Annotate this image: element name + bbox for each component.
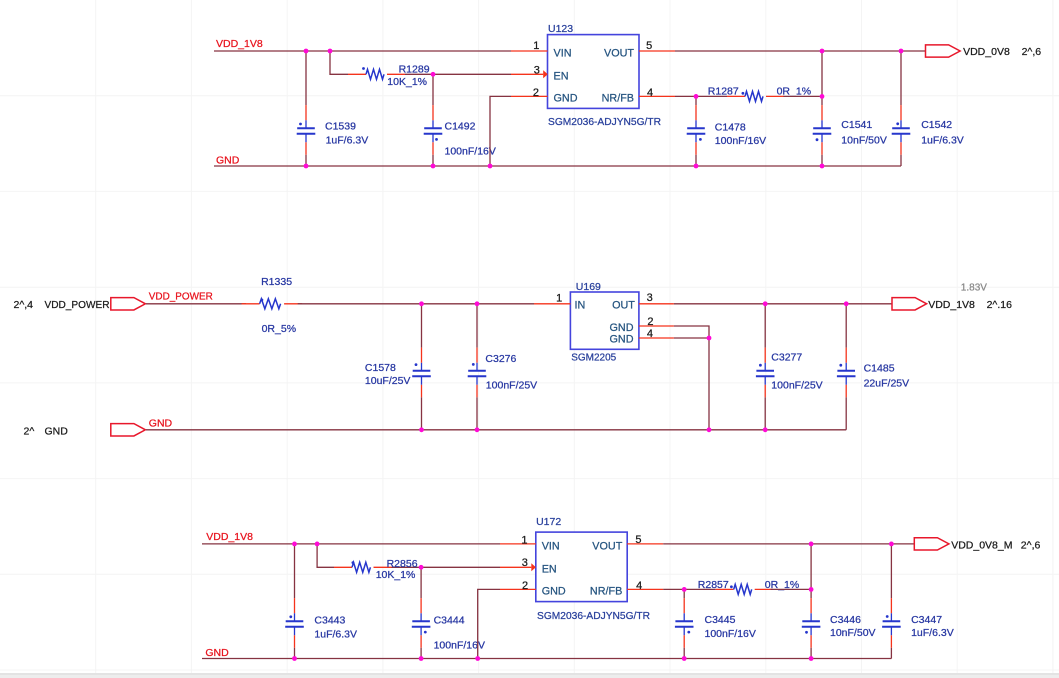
wire upper lead C1492 — [432, 74, 434, 105]
U172 pin 2 GND — [500, 588, 536, 590]
wire upper lead C3276 — [476, 304, 478, 348]
svg-text:R1287: R1287 — [708, 86, 739, 98]
wire lower lead C3445 — [683, 648, 685, 659]
svg-text:GND: GND — [149, 417, 173, 429]
U169 pin 2 GND — [639, 325, 674, 327]
U123 pin 4 NR/FB — [639, 95, 675, 97]
svg-text:U172: U172 — [536, 516, 561, 528]
svg-text:VIN: VIN — [554, 47, 572, 59]
svg-text:GND: GND — [205, 647, 229, 659]
svg-text:2^,6: 2^,6 — [1022, 46, 1042, 58]
svg-text:C1542: C1542 — [921, 119, 952, 131]
U123 pin 5 VOUT — [639, 50, 675, 52]
pin 2 C1541 — [821, 134, 823, 143]
pin 1 C3446 — [810, 598, 812, 613]
pin 1 R1287 — [727, 95, 745, 97]
plates C1492 — [424, 127, 442, 129]
pin 2 C1578 — [421, 376, 423, 385]
plates C3446 — [802, 620, 820, 622]
svg-text:GND: GND — [610, 322, 634, 334]
pin 2 C1542 — [900, 134, 902, 143]
junction bot (891.4,543.9) — [889, 542, 894, 547]
wire GND rail top section — [214, 165, 901, 167]
zigzag body R2857 — [734, 584, 752, 594]
junction mid (765.2,303.8) — [763, 301, 768, 306]
svg-text:C3447: C3447 — [911, 614, 942, 626]
junction bot (294.5,543.9) — [292, 542, 297, 547]
svg-text:2^,4: 2^,4 — [14, 299, 34, 311]
capacitor C3276 — [468, 304, 537, 430]
plates C3444 — [412, 620, 430, 622]
wire lower lead C3446 — [810, 648, 812, 659]
pin 1 C1542 — [900, 105, 902, 120]
svg-text:U123: U123 — [548, 23, 573, 35]
wire lower lead C3443 — [294, 648, 296, 659]
junction top (330,51) — [328, 49, 333, 54]
junction mid (846.2,303.8) — [844, 301, 849, 306]
wire GND pin2 route U172 — [478, 589, 500, 658]
svg-text:SGM2205: SGM2205 — [571, 351, 616, 363]
resistor R1289 — [348, 63, 430, 88]
port VDD_0V8 output — [926, 45, 961, 57]
pin 2 C3277 — [764, 376, 766, 385]
wire U169 GND pins route — [674, 326, 709, 338]
wire NR/FB left segment bottom — [663, 588, 716, 590]
junction top (306,51) — [304, 49, 309, 54]
wire lower lead C3444 — [420, 648, 422, 659]
wire upper lead C1541 — [821, 51, 823, 105]
wire lower lead C1578 — [421, 397, 423, 430]
zigzag body R1287 — [745, 91, 763, 101]
pin 1 C3276 — [476, 348, 478, 363]
wire GND rail bottom — [202, 658, 891, 660]
port VDD_0V8_M output — [914, 538, 949, 550]
U169 pin 3 OUT — [639, 303, 674, 305]
wire upper lead C3443 — [294, 544, 296, 598]
U123 pin 2 GND — [511, 95, 548, 97]
zigzag body R2856 — [352, 562, 370, 572]
pin 1 C1541 — [821, 105, 823, 120]
plates C3445 — [675, 620, 693, 622]
pin 2 C3444 — [420, 627, 422, 636]
wire lower lead C3276 — [476, 397, 478, 430]
svg-text:NR/FB: NR/FB — [602, 93, 634, 105]
pin 2 C3446 — [810, 627, 812, 636]
pin 1 R2857 — [716, 588, 734, 590]
U123 pin 1 VIN — [511, 50, 548, 52]
wire upper lead C3446 — [810, 544, 812, 598]
svg-text:C3276: C3276 — [485, 353, 516, 365]
svg-text:EN: EN — [554, 71, 569, 83]
junction bot (294.5,658.5) — [292, 656, 297, 661]
wire lower lead C1485 — [845, 397, 847, 430]
resistor R2856 — [334, 558, 418, 581]
capacitor C3447 — [882, 544, 954, 659]
svg-text:GND: GND — [45, 425, 69, 437]
svg-text:1: 1 — [556, 292, 562, 304]
U172 pin 4 NR/FB — [627, 588, 663, 590]
svg-text:VOUT: VOUT — [592, 541, 622, 553]
svg-text:VDD_POWER: VDD_POWER — [149, 291, 213, 303]
resistor R2857 — [698, 579, 799, 594]
svg-text:C1541: C1541 — [841, 119, 872, 131]
pin 1 R1335 — [242, 303, 260, 305]
junction mid (709,338) — [707, 336, 712, 341]
svg-text:4: 4 — [647, 328, 653, 340]
plates C3443 — [286, 620, 304, 622]
wire U169 GND down — [708, 338, 710, 430]
wire lower lead C3277 — [764, 397, 766, 430]
wire lower lead C3447 — [890, 648, 892, 659]
plates C1541 — [813, 127, 831, 129]
junction mid (477,429.8) — [475, 427, 480, 432]
wire GND rail middle — [146, 429, 846, 431]
pin 1 C1478 — [695, 105, 697, 120]
svg-text:3: 3 — [534, 65, 540, 77]
svg-text:1: 1 — [521, 535, 527, 547]
svg-text:C1478: C1478 — [715, 121, 746, 133]
pin 1 C3444 — [420, 598, 422, 613]
capacitor C1539 — [297, 51, 369, 166]
junction bot (811.1,589.4) — [809, 587, 814, 592]
svg-text:2^.16: 2^.16 — [987, 299, 1013, 311]
junction top (822,96.4) — [820, 94, 825, 99]
junction bot (684.2,589.4) — [682, 587, 687, 592]
svg-text:U169: U169 — [576, 281, 601, 293]
wire upper lead C1542 — [900, 51, 902, 105]
svg-text:SGM2036-ADJYN5G/TR: SGM2036-ADJYN5G/TR — [537, 610, 650, 622]
wire R2856 to C3444 node — [392, 566, 501, 568]
svg-text:100nF/16V: 100nF/16V — [445, 145, 496, 157]
pin 1 C3443 — [294, 598, 296, 613]
wire NR/FB right segment bottom — [771, 588, 812, 590]
port VDD_POWER input — [111, 298, 146, 310]
svg-text:VIN: VIN — [542, 541, 560, 553]
svg-text:NR/FB: NR/FB — [590, 586, 622, 598]
U169 pin 4 GND — [639, 337, 674, 339]
capacitor C1541 — [813, 51, 887, 166]
svg-text:EN: EN — [542, 564, 557, 576]
U169 pin 1 IN — [534, 303, 570, 305]
svg-text:GND: GND — [216, 154, 240, 166]
wire U169 OUT rail — [674, 303, 892, 305]
pin 2 C3276 — [476, 376, 478, 385]
junction bot (684.2,658.5) — [682, 656, 687, 661]
wire EN branch bottom — [317, 544, 334, 567]
wire lower lead C1478 — [695, 155, 697, 166]
capacitor C3445 — [675, 589, 756, 658]
pin 2 R1287 — [766, 95, 784, 97]
plates C3447 — [883, 620, 901, 622]
junction top (901,51) — [899, 49, 904, 54]
pin 2 R2856 — [374, 566, 392, 568]
pin 1 C1492 — [432, 105, 434, 120]
pin 2 C3445 — [683, 627, 685, 636]
wire upper lead C1539 — [305, 51, 307, 105]
svg-text:4: 4 — [647, 87, 653, 99]
svg-text:4: 4 — [636, 580, 642, 592]
plates C3277 — [756, 370, 774, 372]
wire VDD_POWER to R1335 — [146, 303, 246, 305]
svg-text:C3277: C3277 — [771, 351, 802, 363]
wire GND pin2 route U123 — [490, 96, 511, 166]
junction bot (811.1,658.5) — [809, 656, 814, 661]
wire upper lead C3277 — [764, 304, 766, 348]
svg-text:100nF/16V: 100nF/16V — [715, 135, 766, 147]
U172 pin 3 EN with arrow — [500, 566, 531, 568]
svg-text:VDD_1V8: VDD_1V8 — [216, 38, 263, 50]
capacitor C3446 — [802, 544, 876, 659]
capacitor C3444 — [412, 567, 485, 658]
svg-text:SGM2036-ADJYN5G/TR: SGM2036-ADJYN5G/TR — [548, 116, 661, 128]
svg-text:OUT: OUT — [612, 300, 635, 312]
zigzag body R1289 — [366, 69, 384, 79]
pin 2 R2857 — [755, 588, 773, 590]
pin 2 C1539 — [305, 134, 307, 143]
wire R1289 to C1492 node — [405, 73, 511, 75]
svg-text:C1578: C1578 — [365, 362, 396, 374]
wire lower lead C1541 — [821, 155, 823, 166]
capacitor C1478 — [687, 96, 766, 166]
zigzag body R1335 — [260, 299, 281, 309]
pin 1 C1539 — [305, 105, 307, 120]
pin 1 C1485 — [845, 348, 847, 363]
pin 2 R1289 — [387, 73, 405, 75]
svg-text:5: 5 — [635, 534, 641, 546]
plates C3276 — [468, 370, 486, 372]
plates C1478 — [687, 127, 705, 129]
pin 1 C3277 — [764, 348, 766, 363]
pin 2 R1335 — [284, 303, 302, 305]
svg-text:VDD_1V8: VDD_1V8 — [928, 299, 975, 311]
wire upper lead C3444 — [420, 567, 422, 598]
svg-text:VDD_POWER: VDD_POWER — [45, 299, 110, 311]
pin 2 C1478 — [695, 134, 697, 143]
U172 pin 5 VOUT — [627, 543, 663, 545]
svg-text:VDD_0V8: VDD_0V8 — [963, 46, 1010, 58]
svg-text:C1539: C1539 — [325, 121, 356, 133]
pin 2 C1485 — [845, 376, 847, 385]
svg-text:GND: GND — [554, 93, 578, 105]
capacitor C1485 — [837, 304, 909, 430]
wire upper lead C1478 — [695, 96, 697, 105]
svg-text:R1289: R1289 — [399, 63, 430, 75]
svg-text:R1335: R1335 — [261, 276, 292, 288]
svg-text:22uF/25V: 22uF/25V — [864, 377, 910, 389]
port VDD_1V8 output — [892, 298, 927, 310]
junction bot (421.1,658.5) — [419, 656, 424, 661]
plates C1485 — [837, 370, 855, 372]
junction top (490,166) — [488, 164, 493, 169]
svg-text:2: 2 — [533, 87, 539, 99]
junction mid (421.5,429.8) — [419, 427, 424, 432]
svg-text:2: 2 — [647, 316, 653, 328]
junction top (306,166) — [304, 164, 309, 169]
wire R1335 to U169 IN — [298, 303, 534, 305]
capacitor C1492 — [424, 74, 496, 166]
svg-text:VDD_1V8: VDD_1V8 — [206, 531, 253, 543]
svg-text:2^,6: 2^,6 — [1021, 539, 1041, 551]
pin 1 C3447 — [890, 598, 892, 613]
resistor R1335 — [242, 276, 303, 335]
svg-text:10K_1%: 10K_1% — [387, 76, 427, 88]
wire lower lead C1539 — [305, 155, 307, 166]
svg-text:100nF/25V: 100nF/25V — [771, 380, 822, 392]
junction bot (477.7,658.5) — [475, 656, 480, 661]
wire VDD_1V8 top rail — [214, 50, 511, 52]
wire lower lead C1492 — [432, 155, 434, 166]
capacitor C1542 — [892, 51, 964, 166]
svg-text:5: 5 — [646, 40, 652, 52]
junction mid (765.2,429.8) — [763, 427, 768, 432]
pin 1 C1578 — [421, 348, 423, 363]
wire NR/FB right segment — [783, 95, 822, 97]
junction top (822,166) — [820, 164, 825, 169]
svg-text:C3443: C3443 — [314, 615, 345, 627]
svg-text:C1485: C1485 — [864, 363, 895, 375]
svg-text:VOUT: VOUT — [604, 47, 634, 59]
svg-text:1uF/6.3V: 1uF/6.3V — [911, 627, 954, 639]
svg-text:2: 2 — [522, 580, 528, 592]
pin 1 C3445 — [683, 598, 685, 613]
svg-text:1uF/6.3V: 1uF/6.3V — [314, 628, 357, 640]
plates C1578 — [413, 370, 431, 372]
svg-text:100nF/16V: 100nF/16V — [705, 628, 756, 640]
capacitor C3443 — [285, 544, 357, 659]
svg-text:C3444: C3444 — [434, 615, 465, 627]
resistor R1287 — [708, 86, 811, 102]
junction bot (317.1,543.9) — [315, 542, 320, 547]
junction mid (421.5,303.8) — [419, 301, 424, 306]
wire upper lead C3445 — [683, 589, 685, 598]
junction top (433,74.3) — [431, 72, 436, 77]
capacitor C3277 — [756, 304, 823, 430]
plates C1539 — [297, 127, 315, 129]
svg-text:R2857: R2857 — [698, 579, 729, 591]
pin 2 C1492 — [432, 134, 434, 143]
svg-text:VDD_0V8_M: VDD_0V8_M — [951, 540, 1012, 552]
svg-text:10K_1%: 10K_1% — [376, 569, 416, 581]
svg-text:100nF/25V: 100nF/25V — [486, 380, 537, 392]
junction mid (477,303.8) — [475, 301, 480, 306]
svg-text:C3446: C3446 — [830, 614, 861, 626]
wire VOUT rail bottom — [663, 543, 914, 545]
pin 1 R2856 — [334, 566, 352, 568]
pin 2 C3447 — [890, 627, 892, 636]
svg-text:C3445: C3445 — [705, 614, 736, 626]
svg-text:10uF/25V: 10uF/25V — [365, 375, 411, 387]
wire upper lead C1578 — [421, 304, 423, 348]
junction mid (709,429.8) — [707, 427, 712, 432]
capacitor C1578 — [365, 304, 431, 430]
wire VDD_1V8 rail bottom — [202, 543, 500, 545]
svg-text:1.83V: 1.83V — [961, 282, 987, 293]
svg-text:3: 3 — [522, 557, 528, 569]
svg-text:3: 3 — [647, 292, 653, 304]
wire upper lead C3447 — [890, 544, 892, 598]
svg-text:GND: GND — [610, 333, 634, 345]
pin 2 C3443 — [294, 627, 296, 636]
svg-text:1: 1 — [533, 40, 539, 52]
plates C1542 — [892, 127, 910, 129]
pin 1 R1289 — [348, 73, 366, 75]
junction bot (811.1,543.9) — [809, 542, 814, 547]
wire EN branch from rail — [330, 51, 348, 74]
junction bot (421.1,567.3) — [419, 565, 424, 570]
svg-text:1uF/6.3V: 1uF/6.3V — [921, 134, 964, 146]
wire NR/FB left segment — [675, 95, 727, 97]
op-amp U169 regulator SGM2205 — [534, 281, 674, 363]
svg-text:10nF/50V: 10nF/50V — [841, 134, 887, 146]
wire VOUT rail top — [675, 50, 926, 52]
svg-text:C1492: C1492 — [445, 120, 476, 132]
U123 pin 3 EN with arrow — [511, 73, 543, 75]
svg-text:1uF/6.3V: 1uF/6.3V — [326, 135, 369, 147]
op-amp U172 regulator SGM2036 — [500, 516, 663, 622]
svg-text:0R_5%: 0R_5% — [262, 323, 296, 335]
U172 pin 1 VIN — [500, 543, 536, 545]
wire upper lead C1485 — [845, 304, 847, 348]
op-amp U123 regulator SGM2036 — [511, 23, 675, 128]
svg-text:10nF/50V: 10nF/50V — [830, 627, 876, 639]
junction top (696,96.4) — [694, 94, 699, 99]
svg-text:2^: 2^ — [24, 425, 35, 437]
svg-text:IN: IN — [575, 300, 586, 312]
junction top (696,166) — [694, 164, 699, 169]
svg-text:GND: GND — [542, 586, 566, 598]
junction top (433,166) — [431, 164, 436, 169]
junction top (822,51) — [820, 49, 825, 54]
wire lower lead C1542 — [900, 155, 902, 166]
svg-text:R2856: R2856 — [387, 558, 418, 570]
port GND input — [111, 424, 146, 436]
